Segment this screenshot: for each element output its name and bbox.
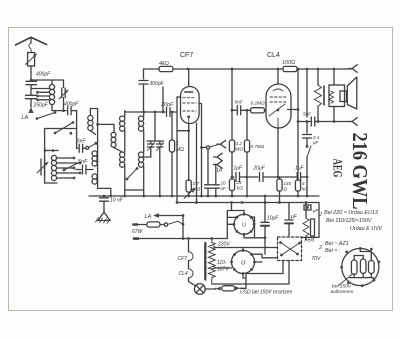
- wave switch lever S1: [54, 121, 75, 135]
- capacitor 10uF electrolytic: [261, 196, 269, 254]
- svg-text:1A: 1A: [216, 168, 223, 174]
- wire tap 110V: [216, 267, 224, 269]
- resistor dropping: [222, 286, 235, 291]
- wire rect right pins: [244, 217, 265, 238]
- pilot lamp: [194, 284, 205, 295]
- wire primary bottom: [212, 283, 289, 285]
- capacitor 5nF tone: [298, 117, 351, 126]
- transformer primary zigzag: [208, 239, 215, 285]
- capacitor 20pF row: [247, 173, 278, 182]
- junction feed: [182, 214, 185, 217]
- output transformer primary zigzag: [315, 69, 322, 122]
- tube CL4 cathode wire: [277, 128, 279, 177]
- capacitor 400pF bandset: [68, 106, 77, 128]
- junction antenna top: [30, 79, 33, 82]
- svg-text:1μF: 1μF: [295, 166, 305, 172]
- svg-text:kΩ: kΩ: [237, 186, 243, 191]
- switch contact S3: [86, 146, 89, 149]
- junction dial: [182, 223, 185, 226]
- wire screen feed: [231, 69, 233, 140]
- capacitor 250pF to LA terminal: [26, 95, 37, 107]
- junction top CL4: [277, 68, 280, 71]
- wire coil bottom: [52, 105, 66, 111]
- radio switch contact: [206, 146, 209, 149]
- svg-text:250pF: 250pF: [33, 103, 49, 109]
- IF coil assembly 1 rail: [98, 109, 111, 197]
- capacitor input 1: [205, 185, 212, 196]
- heater winding CF7: [189, 239, 194, 269]
- tube CL4 top wire: [277, 69, 279, 84]
- svg-text:1μF: 1μF: [234, 166, 244, 172]
- bus upper: [89, 195, 319, 197]
- junction screen: [200, 146, 203, 149]
- screen lead: [199, 104, 201, 197]
- wire arrester down: [30, 66, 32, 81]
- wire switch down: [306, 157, 308, 196]
- AVC dots: [231, 176, 234, 179]
- LA terminal arrow: [28, 107, 33, 113]
- junction wrap: [187, 129, 190, 132]
- svg-text:J: J: [318, 212, 322, 218]
- wire resistor right: [240, 274, 246, 289]
- svg-text:20μF: 20μF: [253, 166, 266, 172]
- svg-text:5nF: 5nF: [77, 139, 87, 145]
- svg-text:400pF: 400pF: [36, 72, 51, 78]
- bus dots lower: [241, 201, 244, 204]
- capacitor 10uF second: [285, 203, 293, 237]
- pickup terminal TA upper: [214, 153, 223, 161]
- svg-text:MΩ: MΩ: [176, 147, 184, 153]
- switch lever S3: [89, 142, 98, 148]
- svg-text:bei 150V: bei 150V: [332, 284, 352, 290]
- terminal 67W bar: [134, 223, 138, 226]
- variable capacitor (tuning): [37, 159, 48, 175]
- grid wrap wire: [177, 97, 189, 203]
- svg-text:CF7: CF7: [178, 256, 188, 262]
- antenna coil taps: [31, 89, 50, 100]
- trimmer feed wire: [154, 112, 156, 141]
- wire 67W: [138, 224, 147, 226]
- svg-text:25: 25: [236, 180, 243, 185]
- transformer core bar: [323, 86, 325, 105]
- wire to CL4 grid: [265, 109, 267, 111]
- node dots on grid line: [142, 111, 145, 114]
- voltage selector dashed box: [278, 237, 302, 261]
- switch lever dial: [168, 221, 183, 224]
- svg-text:Urdau E UVII: Urdau E UVII: [350, 226, 382, 232]
- resistor 100 ohm: [283, 66, 297, 71]
- tube pin wire: [196, 123, 198, 203]
- resistor 0.2M vertical: [229, 140, 234, 152]
- speaker terminal top: [349, 65, 358, 73]
- rectifier lower pins: [230, 249, 256, 275]
- wire speaker top lead: [333, 69, 335, 85]
- coil L3a: [88, 115, 96, 134]
- tube CF7 electrodes: [183, 92, 197, 124]
- socket element 2: [360, 256, 366, 274]
- svg-text:140: 140: [284, 181, 292, 186]
- trimmer capacitor: [59, 88, 68, 99]
- switch lever S2: [63, 163, 78, 171]
- wire sec tap: [98, 124, 114, 132]
- svg-text:216 GWL: 216 GWL: [348, 133, 372, 210]
- node frame: [44, 149, 47, 152]
- svg-text:10μF: 10μF: [267, 216, 279, 222]
- tone row dots: [317, 120, 320, 123]
- svg-text:4: 4: [302, 181, 305, 186]
- tube CF7 envelope: [181, 87, 200, 124]
- coil L4a: [120, 116, 125, 131]
- tap junction dots: [36, 91, 39, 94]
- socket element 1: [351, 256, 363, 275]
- tap arrow 220V: [212, 246, 217, 249]
- svg-text:Bei 220 ≈ Urdau EU13: Bei 220 ≈ Urdau EU13: [324, 210, 378, 216]
- junction trimmer: [62, 109, 65, 112]
- wire grid2 feed: [246, 110, 248, 140]
- svg-text:4kΩ: 4kΩ: [159, 61, 169, 67]
- junction heater-primary: [187, 237, 190, 240]
- capacitor 5nF (lower): [76, 165, 93, 174]
- capacitor 1uF right: [297, 173, 307, 182]
- svg-text:USD bei 150V ersetzen: USD bei 150V ersetzen: [240, 290, 292, 296]
- svg-text:300pF: 300pF: [150, 81, 165, 87]
- tap arrow 110V: [212, 266, 217, 269]
- coil L4b: [120, 152, 125, 167]
- svg-text:LA: LA: [145, 214, 152, 220]
- trimmer drop right: [159, 152, 161, 197]
- mains terminal bar: [134, 237, 138, 240]
- resistor 1M vertical: [171, 112, 173, 140]
- capacitor 10nF to ground: [100, 196, 109, 212]
- wire rail top: [90, 109, 97, 116]
- heater winding CL4: [189, 269, 196, 286]
- junction pin: [195, 201, 198, 204]
- ground: [96, 212, 111, 224]
- trimmer drop left: [144, 152, 151, 158]
- band lever antenna: [36, 111, 57, 120]
- rectifier upper pins: [233, 213, 256, 236]
- padding trimmer 2: [157, 141, 164, 152]
- coil L5b: [139, 152, 144, 167]
- svg-text:10 nF: 10 nF: [110, 198, 124, 204]
- wire AVC right: [278, 176, 296, 178]
- svg-text:Bei 110/125/≈150V: Bei 110/125/≈150V: [326, 218, 373, 224]
- wire plate feed left: [143, 69, 145, 79]
- padding trimmer 1: [148, 141, 155, 152]
- socket element 3: [360, 248, 374, 273]
- tube CF7 top cap wire: [188, 69, 190, 87]
- capacitor 1uF: [236, 173, 248, 182]
- dial lamp feed wire: [158, 215, 183, 217]
- socket bottom bar: [350, 273, 375, 280]
- svg-text:U: U: [241, 261, 246, 267]
- svg-text:10: 10: [221, 181, 227, 186]
- ballast resistor 67W: [147, 222, 160, 227]
- svg-text:20pF: 20pF: [160, 102, 174, 108]
- wire trimmer bottom: [63, 98, 65, 111]
- speaker cone: [347, 77, 357, 109]
- wire osc feed: [162, 87, 164, 112]
- svg-text:U: U: [242, 223, 246, 229]
- dial lamp feed arrow: [153, 213, 159, 217]
- AVC row wire: [232, 176, 234, 178]
- selector lever 2: [280, 242, 301, 257]
- wire 1M to bus: [171, 152, 173, 196]
- wire frame taps: [45, 150, 58, 152]
- coil tap wires: [57, 158, 80, 178]
- svg-text:110-: 110-: [217, 260, 227, 266]
- dot tone bottom: [306, 176, 309, 179]
- wire coupling row: [232, 109, 236, 111]
- capacitor 5nF (top): [77, 129, 86, 153]
- capacitor 5nF coupling: [237, 106, 251, 115]
- top bus wire: [144, 68, 352, 70]
- svg-text:MΩ: MΩ: [236, 147, 244, 152]
- wire lamp to resistor: [205, 287, 216, 290]
- wire coil top: [31, 80, 64, 88]
- wire TA caps: [208, 149, 216, 185]
- selector lever 1: [279, 241, 299, 255]
- speaker magnet: [340, 91, 347, 102]
- junction heater top: [182, 237, 185, 240]
- wire below cap: [306, 138, 308, 146]
- speaker frame: [329, 85, 345, 107]
- switch lever S4: [126, 167, 139, 180]
- resistor 4k: [159, 66, 173, 71]
- wire screen rail: [306, 69, 308, 117]
- switch lever tone: [306, 145, 311, 157]
- band switch frame: [45, 129, 77, 184]
- svg-text:Ω: Ω: [284, 187, 288, 192]
- trimmer top bar: [147, 140, 164, 142]
- radio switch wire: [202, 147, 207, 149]
- arrow out of resistor: [235, 286, 240, 290]
- oscillator coil L2: [51, 155, 56, 180]
- arrow into resistor: [216, 287, 221, 291]
- antenna coil L1: [49, 84, 54, 104]
- resistor 0.7M vertical: [244, 140, 249, 152]
- tap dots: [73, 157, 76, 160]
- svg-text:67W: 67W: [132, 229, 144, 235]
- svg-text:5nF: 5nF: [235, 100, 244, 106]
- svg-text:auftrennen: auftrennen: [331, 289, 354, 295]
- tube CF7 cathode wire: [188, 124, 190, 181]
- junction plate rail: [297, 108, 300, 111]
- coil bumps left rail: [111, 132, 122, 152]
- IF coil rail 2: [124, 111, 126, 197]
- wire plate rail CL4: [297, 69, 299, 196]
- svg-text:5nF: 5nF: [78, 159, 88, 165]
- junction cathode: [264, 236, 267, 239]
- frame bar assemblies: [125, 189, 144, 191]
- wire to contact: [160, 224, 164, 226]
- rectifier tube upper circle: [234, 214, 254, 234]
- svg-text:AEG: AEG: [331, 159, 346, 178]
- surge arrester: [26, 53, 37, 67]
- resistor 0.2M horizontal: [251, 108, 265, 113]
- grid line bus: [125, 111, 163, 113]
- selector wires: [216, 203, 319, 284]
- wire rect left pins: [227, 217, 237, 224]
- svg-text:Feld: Feld: [305, 238, 315, 244]
- svg-text:LA: LA: [22, 115, 29, 121]
- wire rect frame: [212, 203, 244, 239]
- socket cut wire: [339, 274, 354, 286]
- IF coil rail 3: [143, 112, 145, 196]
- svg-text:70V: 70V: [312, 256, 322, 262]
- wire CL4 plate to rail: [288, 109, 299, 111]
- svg-text:2: 2: [318, 245, 322, 251]
- wire speaker bottom lead: [333, 107, 335, 122]
- svg-text:5nF: 5nF: [303, 112, 312, 117]
- antenna: [16, 37, 47, 45]
- svg-text:0.7MΩ: 0.7MΩ: [251, 144, 265, 149]
- wire tone chain: [306, 122, 308, 134]
- wire heater drop: [183, 216, 189, 239]
- resistor 4k vertical: [295, 180, 300, 191]
- capacitor 20pF grid: [163, 108, 177, 117]
- svg-text:220V: 220V: [217, 242, 230, 248]
- rectifier tube lower circle: [232, 251, 255, 274]
- speaker terminal bottom: [349, 118, 358, 126]
- tube CL4 electrodes: [269, 89, 287, 128]
- resistor 0.7M cathode: [186, 180, 191, 192]
- connector small: [304, 205, 311, 210]
- bus dots upper: [109, 195, 112, 198]
- svg-text:100Ω: 100Ω: [282, 60, 295, 66]
- wire screen lower: [231, 152, 233, 196]
- contact circle: [164, 223, 167, 226]
- spark-gap hook: [29, 43, 32, 52]
- capacitor 300pF: [139, 81, 148, 113]
- junction sec: [96, 123, 99, 126]
- svg-text:Bei ~ AZ1: Bei ~ AZ1: [325, 241, 349, 247]
- tube CL4 envelope: [266, 84, 291, 128]
- resistor 140 vertical: [277, 177, 282, 203]
- capacitor 0.1uF: [303, 135, 312, 139]
- wire 0.7M lower: [246, 152, 248, 196]
- tube socket circle: [342, 248, 379, 285]
- wire rect lower leads: [224, 268, 246, 278]
- wire primary top: [138, 238, 212, 240]
- wire rect lower top pin: [242, 248, 244, 251]
- junction dots coupling row: [231, 109, 234, 112]
- svg-text:CF7: CF7: [180, 52, 193, 59]
- bus lower: [177, 202, 319, 204]
- wire antenna lead-in: [30, 38, 32, 43]
- svg-text:CL4: CL4: [179, 271, 188, 277]
- coil L5a: [139, 116, 144, 131]
- svg-text:Bei ≈ :: Bei ≈ :: [325, 248, 341, 254]
- field coil resistor: [303, 203, 315, 241]
- junction 1M top: [171, 111, 174, 114]
- junction frame: [230, 201, 233, 204]
- capacitor 400pF (antenna series): [26, 81, 37, 95]
- wire cathode to bus: [188, 192, 190, 196]
- svg-text:0.2: 0.2: [236, 141, 243, 146]
- radio switch terminal: [217, 140, 226, 148]
- svg-text:CL4: CL4: [267, 52, 280, 59]
- capacitor input 2 (10nF): [212, 185, 219, 196]
- bus junction dots: [187, 68, 190, 71]
- svg-text:kΩ: kΩ: [302, 187, 308, 192]
- pickup terminal TA lower: [214, 161, 223, 169]
- coil L3b: [92, 151, 97, 166]
- socket pins: [340, 247, 380, 287]
- pot arrow 0.7M: [184, 189, 195, 199]
- svg-text:0.2MΩ: 0.2MΩ: [251, 101, 266, 107]
- radio switch lever: [210, 144, 220, 147]
- resistor 25k vertical: [229, 179, 234, 191]
- coil L3c: [92, 174, 97, 184]
- mains transformer core: [204, 243, 206, 280]
- svg-text:μF: μF: [290, 214, 298, 220]
